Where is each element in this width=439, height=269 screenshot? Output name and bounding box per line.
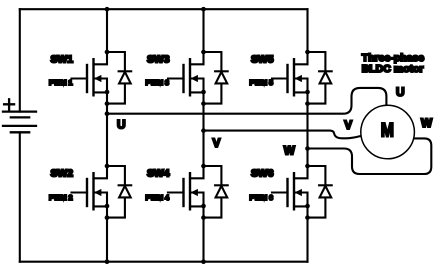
svg-text:W: W xyxy=(284,144,296,158)
node: SW2 diode return junction xyxy=(105,215,110,220)
wire: leg 1 lower (low-side source to rail) xyxy=(106,208,108,262)
node: bottom rail junction xyxy=(105,259,110,264)
node: SW1 diode return junction xyxy=(105,101,110,106)
diode D6 (freewheel) xyxy=(308,166,332,218)
wire: leg 2 lower (low-side source to rail) xyxy=(202,208,204,262)
svg-text:SW1: SW1 xyxy=(51,55,74,66)
battery + polarity mark xyxy=(4,99,14,109)
node: SW1 drain / diode split xyxy=(105,50,110,55)
wire: phase U to motor xyxy=(107,88,386,114)
node: top rail junction xyxy=(201,7,206,12)
wire: leg 2 upper (rail to high-side switch) xyxy=(202,9,204,52)
svg-text:SW5: SW5 xyxy=(251,55,274,66)
node: top rail junction xyxy=(105,7,110,12)
DC bus - rail (bottom) xyxy=(20,261,308,263)
transistor SW5 xyxy=(272,52,308,95)
node: SW5 drain / diode split xyxy=(305,50,310,55)
svg-text:PWM 6: PWM 6 xyxy=(250,193,274,202)
battery positive wire xyxy=(19,9,21,111)
svg-text:PWM 1: PWM 1 xyxy=(49,78,73,87)
node: SW3 source / body junction xyxy=(201,90,206,95)
wire: leg 3 lower (low-side source to rail) xyxy=(306,208,308,262)
svg-text:SW6: SW6 xyxy=(251,169,274,180)
svg-text:W: W xyxy=(421,116,433,130)
diode D1 (freewheel) xyxy=(107,52,131,104)
node: SW6 source / body junction xyxy=(305,204,310,209)
transistor SW4 xyxy=(168,166,204,209)
battery negative wire xyxy=(19,132,21,261)
node U xyxy=(105,111,110,116)
node: SW5 source / body junction xyxy=(305,90,310,95)
node: SW3 drain / diode split xyxy=(201,50,206,55)
diode D3 (freewheel) xyxy=(204,52,228,104)
diode D5 (freewheel) xyxy=(308,52,332,104)
node: SW3 diode return junction xyxy=(201,101,206,106)
node W xyxy=(305,146,310,151)
wire: leg 1 upper (rail to high-side switch) xyxy=(106,9,108,52)
node: SW5 diode return junction xyxy=(305,101,310,106)
node: SW4 source / body junction xyxy=(201,204,206,209)
svg-text:V: V xyxy=(344,118,352,132)
node: SW6 diode return junction xyxy=(305,215,310,220)
battery BT1 xyxy=(3,112,36,133)
svg-text:PWM 3: PWM 3 xyxy=(146,78,170,87)
wire: phase W to motor xyxy=(308,138,432,174)
svg-text:M: M xyxy=(381,119,394,141)
transistor SW3 xyxy=(168,52,204,95)
svg-text:SW2: SW2 xyxy=(51,169,74,180)
svg-text:SW4: SW4 xyxy=(147,169,170,180)
transistor SW1 xyxy=(72,52,108,95)
svg-text:BLDC motor: BLDC motor xyxy=(362,63,424,75)
motor M1 (BLDC) body xyxy=(361,105,415,159)
svg-text:V: V xyxy=(213,136,221,150)
svg-text:U: U xyxy=(117,117,126,131)
svg-text:PWM 4: PWM 4 xyxy=(146,193,170,202)
node: SW2 source / body junction xyxy=(105,204,110,209)
diode D4 (freewheel) xyxy=(204,166,228,218)
svg-text:PWM 5: PWM 5 xyxy=(250,78,274,87)
transistor SW2 xyxy=(72,166,108,209)
wire: leg 2 mid (high-side source to low-side drain) xyxy=(202,92,204,166)
wire: leg 1 mid (high-side source to low-side drain) xyxy=(106,92,108,166)
node: SW4 diode return junction xyxy=(201,215,206,220)
wire: leg 3 mid (high-side source to low-side drain) xyxy=(306,92,308,166)
DC bus + rail (top) xyxy=(20,8,308,10)
node V xyxy=(201,128,206,133)
wire: leg 3 upper (rail to high-side switch) xyxy=(306,9,308,52)
svg-text:SW3: SW3 xyxy=(147,55,170,66)
wire: phase V to motor xyxy=(204,131,362,139)
node: SW4 drain / diode split xyxy=(201,164,206,169)
node: SW6 drain / diode split xyxy=(305,164,310,169)
svg-text:U: U xyxy=(396,85,405,99)
diode D2 (freewheel) xyxy=(107,166,131,218)
transistor SW6 xyxy=(272,166,308,209)
svg-text:PWM 2: PWM 2 xyxy=(49,193,73,202)
node: SW2 drain / diode split xyxy=(105,164,110,169)
node: bottom rail junction xyxy=(201,259,206,264)
node: SW1 source / body junction xyxy=(105,90,110,95)
